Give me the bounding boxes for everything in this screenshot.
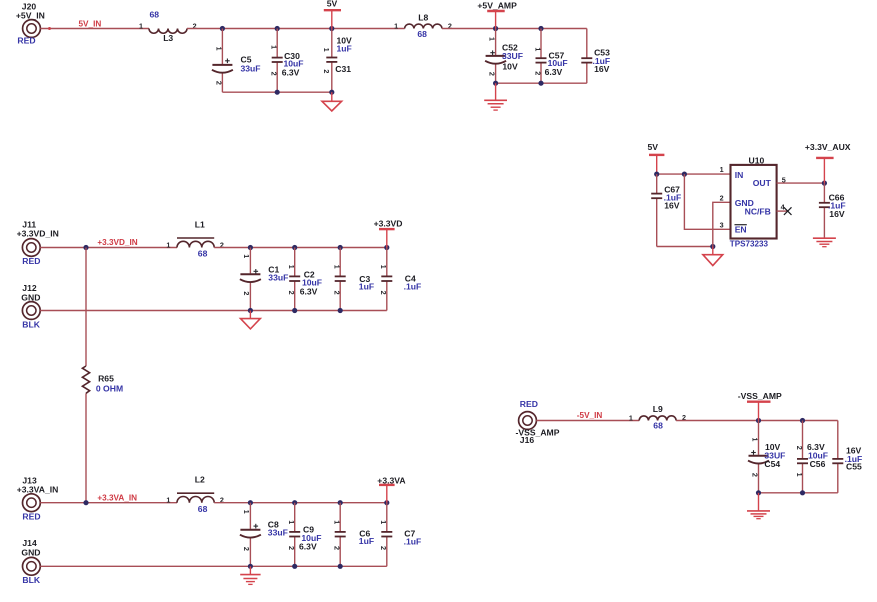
svg-text:2: 2: [242, 291, 251, 295]
svg-text:2: 2: [750, 473, 759, 477]
capacitor C9: [287, 503, 321, 567]
inductor L9: [629, 404, 686, 430]
svg-text:1: 1: [242, 254, 251, 258]
junction: [710, 244, 715, 249]
svg-text:1: 1: [166, 496, 170, 505]
capacitor C1: [240, 248, 288, 311]
ground triangle: [322, 92, 342, 111]
svg-text:L2: L2: [195, 475, 205, 485]
capacitor C54: [748, 421, 785, 493]
svg-text:2: 2: [795, 446, 804, 450]
svg-text:.1uF: .1uF: [404, 537, 422, 547]
connector J11: [17, 219, 59, 266]
ground earth: [747, 493, 770, 519]
svg-text:BLK: BLK: [22, 575, 40, 585]
power flag -VSS_AMP: [738, 391, 782, 421]
svg-text:68: 68: [653, 421, 663, 431]
svg-text:L1: L1: [195, 220, 205, 230]
junction: [248, 564, 253, 569]
wire bank1 bottom rail: [222, 91, 331, 93]
svg-text:1: 1: [379, 265, 388, 269]
capacitor C31: [322, 29, 352, 93]
capacitor C55: [832, 421, 862, 493]
svg-text:10V: 10V: [502, 61, 518, 71]
capacitor C7: [379, 503, 421, 567]
capacitor C52: [485, 29, 523, 84]
ground triangle: [241, 311, 261, 329]
wire OUT pin 5: [777, 182, 825, 184]
capacitor C5: [212, 29, 261, 93]
junction: [493, 81, 498, 86]
wire C67 bottom to GND node: [657, 246, 713, 248]
ground earth: [484, 83, 507, 110]
junction: [384, 245, 389, 250]
capacitor C3: [333, 248, 374, 311]
svg-text:2: 2: [322, 69, 331, 73]
inductor L8: [394, 13, 452, 39]
junction: [338, 308, 343, 313]
svg-text:1: 1: [379, 520, 388, 524]
inductor L3: [139, 10, 197, 44]
svg-text:+5V_AMP: +5V_AMP: [477, 1, 517, 11]
wire EN pin 3: [684, 174, 730, 229]
svg-text:RED: RED: [17, 36, 35, 46]
svg-text:+3.3VD: +3.3VD: [374, 219, 403, 229]
junction: [292, 308, 297, 313]
svg-text:16V: 16V: [829, 209, 845, 219]
svg-text:16V: 16V: [594, 64, 610, 74]
svg-text:1: 1: [795, 473, 804, 477]
junction: [384, 500, 389, 505]
svg-text:C31: C31: [335, 64, 351, 74]
svg-text:GND: GND: [21, 548, 40, 558]
capacitor C67: [651, 174, 681, 246]
svg-text:2: 2: [214, 81, 223, 85]
capacitor C53: [581, 29, 610, 84]
svg-text:33uF: 33uF: [241, 64, 261, 74]
svg-text:2: 2: [533, 71, 542, 75]
svg-text:IN: IN: [735, 170, 744, 180]
junction: [682, 172, 687, 177]
svg-text:.1uF: .1uF: [404, 282, 422, 292]
svg-text:3: 3: [720, 221, 724, 230]
svg-text:5V: 5V: [327, 0, 338, 9]
junction: [248, 308, 253, 313]
svg-text:1: 1: [242, 510, 251, 514]
svg-text:33UF: 33UF: [502, 51, 523, 61]
capacitor C57: [533, 29, 567, 84]
wire L9 to C55 corner: [676, 420, 838, 422]
capacitor C6: [333, 503, 374, 567]
capacitor C30: [269, 29, 303, 93]
ground triangle: [703, 247, 723, 266]
svg-text:2: 2: [287, 291, 296, 295]
svg-text:C54: C54: [764, 459, 780, 469]
svg-text:2: 2: [379, 546, 388, 550]
svg-text:33uF: 33uF: [268, 528, 288, 538]
capacitor C8: [240, 503, 288, 567]
wire J11 to L1: [40, 247, 177, 249]
junction: [756, 418, 761, 423]
svg-text:TPS73233: TPS73233: [730, 239, 769, 248]
no-connect pin 4 NC/FB: [777, 207, 792, 215]
svg-text:1: 1: [487, 37, 496, 41]
svg-text:16V: 16V: [664, 200, 680, 210]
svg-text:1: 1: [269, 45, 278, 49]
svg-text:+3.3V_AUX: +3.3V_AUX: [805, 142, 851, 152]
svg-text:NC/FB: NC/FB: [745, 206, 771, 216]
junction: [292, 245, 297, 250]
svg-text:5V_IN: 5V_IN: [79, 20, 102, 29]
svg-text:L9: L9: [653, 404, 663, 414]
junction: [220, 26, 225, 31]
inductor L2: [166, 475, 224, 514]
junction: [822, 181, 827, 186]
svg-text:2: 2: [269, 72, 278, 76]
power flag +5V_AMP: [477, 1, 517, 29]
svg-text:L8: L8: [418, 13, 428, 23]
junction: [275, 90, 280, 95]
wire L8 to C53: [442, 28, 587, 30]
svg-text:1: 1: [394, 21, 398, 30]
svg-text:RED: RED: [22, 256, 40, 266]
svg-text:L3: L3: [163, 33, 173, 43]
wire J14 ground rail: [40, 565, 387, 567]
power flag 5V (U10 input): [648, 142, 665, 174]
svg-text:1uF: 1uF: [337, 43, 352, 53]
junction: [329, 26, 334, 31]
wire L1 to +3.3VD corner: [214, 247, 387, 249]
svg-text:+3.3VA_IN: +3.3VA_IN: [17, 485, 59, 495]
junction: [756, 490, 761, 495]
wire GND pin 2: [713, 202, 731, 246]
svg-text:2: 2: [333, 291, 342, 295]
svg-text:2: 2: [333, 546, 342, 550]
junction: [338, 564, 343, 569]
junction: [292, 564, 297, 569]
svg-text:68: 68: [198, 249, 208, 259]
junction: [248, 245, 253, 250]
svg-text:-5V_IN: -5V_IN: [577, 411, 603, 420]
svg-text:1: 1: [333, 265, 342, 269]
svg-text:1: 1: [287, 520, 296, 524]
junction: [654, 172, 659, 177]
wire VSS bank bottom rail: [759, 492, 838, 494]
junction node R65 top: [83, 245, 88, 250]
junction: [538, 26, 543, 31]
svg-text:R65: R65: [98, 374, 114, 384]
svg-text:33uF: 33uF: [268, 272, 288, 282]
svg-text:1: 1: [214, 47, 223, 51]
junction: [275, 26, 280, 31]
connector J20: [16, 1, 45, 45]
svg-text:+5V_IN: +5V_IN: [16, 10, 45, 20]
svg-text:6.3V: 6.3V: [299, 542, 317, 552]
connector J13: [17, 476, 59, 522]
svg-text:68: 68: [198, 504, 208, 514]
svg-text:5V: 5V: [648, 142, 659, 152]
connector J12: [21, 283, 40, 330]
svg-text:1: 1: [720, 165, 724, 174]
svg-text:OUT: OUT: [753, 178, 772, 188]
svg-text:1uF: 1uF: [359, 282, 374, 292]
resistor R65: [82, 248, 123, 503]
junction node R65 bottom: [83, 500, 88, 505]
wire J13 to L2: [40, 502, 177, 504]
power flag +3.3V_AUX: [805, 142, 851, 183]
svg-text:C55: C55: [846, 461, 862, 471]
svg-text:J16: J16: [520, 435, 535, 445]
power flag +3.3VA: [377, 475, 405, 502]
wire J12 ground rail: [40, 310, 387, 312]
svg-text:1: 1: [333, 520, 342, 524]
svg-text:2: 2: [720, 194, 724, 203]
svg-text:1: 1: [287, 265, 296, 269]
svg-text:1: 1: [139, 21, 143, 30]
svg-text:6.3V: 6.3V: [282, 67, 300, 77]
svg-text:+3.3VA: +3.3VA: [377, 475, 405, 485]
junction: [329, 90, 334, 95]
wire L2 to +3.3VA corner: [214, 502, 387, 504]
svg-text:4: 4: [781, 202, 785, 211]
ground earth: [813, 238, 836, 247]
power flag +3.3VD: [374, 219, 403, 248]
svg-text:-VSS_AMP: -VSS_AMP: [738, 391, 782, 401]
op-amp U10 TPS73233 regulator: [730, 155, 777, 248]
svg-text:+3.3VD_IN: +3.3VD_IN: [97, 238, 137, 247]
junction: [248, 500, 253, 505]
inductor L1: [166, 220, 224, 259]
svg-text:2: 2: [379, 291, 388, 295]
svg-text:1uF: 1uF: [359, 536, 374, 546]
svg-text:J14: J14: [22, 538, 37, 548]
junction: [292, 500, 297, 505]
svg-text:0 OHM: 0 OHM: [96, 384, 123, 394]
svg-text:6.3V: 6.3V: [545, 67, 563, 77]
wire bank2 bottom rail: [496, 82, 587, 84]
junction: [538, 81, 543, 86]
svg-text:J12: J12: [22, 283, 37, 293]
wire J16 to L9: [536, 420, 639, 422]
svg-text:6.3V: 6.3V: [300, 286, 318, 296]
connector J14: [21, 538, 40, 585]
junction: [493, 26, 498, 31]
svg-text:2: 2: [287, 546, 296, 550]
svg-text:2: 2: [487, 72, 496, 76]
svg-text:2: 2: [242, 547, 251, 551]
svg-text:+3.3VD_IN: +3.3VD_IN: [17, 228, 59, 238]
ground earth: [240, 566, 260, 584]
svg-text:C56: C56: [810, 459, 826, 469]
svg-text:EN: EN: [735, 224, 747, 234]
junction: [800, 490, 805, 495]
connector J16: [516, 399, 560, 445]
junction: [338, 245, 343, 250]
svg-text:1: 1: [166, 240, 170, 249]
svg-text:+3.3VA_IN: +3.3VA_IN: [97, 493, 137, 502]
wire L3 to L8: [187, 28, 405, 30]
svg-text:BLK: BLK: [22, 320, 40, 330]
svg-text:1: 1: [750, 438, 759, 442]
capacitor C56: [795, 421, 828, 493]
junction: [338, 500, 343, 505]
svg-text:U10: U10: [749, 155, 765, 165]
wire 5V to IN pin 1: [657, 173, 731, 175]
svg-text:1: 1: [533, 47, 542, 51]
capacitor C2: [287, 248, 322, 311]
power flag 5V: [324, 0, 341, 29]
wire J20 to L3: [40, 27, 149, 30]
svg-text:RED: RED: [520, 399, 538, 409]
capacitor C66: [819, 183, 846, 238]
junction: [800, 418, 805, 423]
svg-text:1: 1: [629, 413, 633, 422]
svg-text:1: 1: [322, 48, 331, 52]
svg-text:GND: GND: [21, 293, 40, 303]
svg-text:68: 68: [150, 10, 160, 20]
svg-text:RED: RED: [22, 512, 40, 522]
capacitor C4: [379, 248, 421, 311]
svg-text:68: 68: [417, 29, 427, 39]
